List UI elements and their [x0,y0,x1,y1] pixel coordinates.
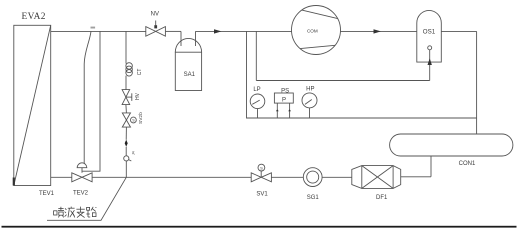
svg-text:NV: NV [151,11,159,17]
svg-text:TEV1: TEV1 [39,191,55,197]
svg-text:DF1: DF1 [376,195,388,201]
svg-text:S: S [260,165,263,170]
svg-text:TEV2: TEV2 [73,191,89,197]
svg-text:SA1: SA1 [184,72,196,78]
svg-text:OS1: OS1 [423,29,436,36]
svg-text:CON1: CON1 [459,161,476,167]
svg-text:J4: J4 [132,151,136,155]
svg-text:SG1: SG1 [307,195,320,201]
svg-text:COM: COM [307,29,318,34]
svg-text:PS: PS [281,88,289,94]
svg-text:EVA2: EVA2 [22,12,46,22]
svg-text:SV2b: SV2b [138,112,144,124]
svg-text:HP: HP [306,86,314,92]
svg-text:HV: HV [135,92,141,100]
svg-text:CT: CT [137,69,143,76]
svg-text:LP: LP [253,87,260,93]
svg-text:SV1: SV1 [256,191,268,197]
svg-text:P: P [282,98,286,104]
